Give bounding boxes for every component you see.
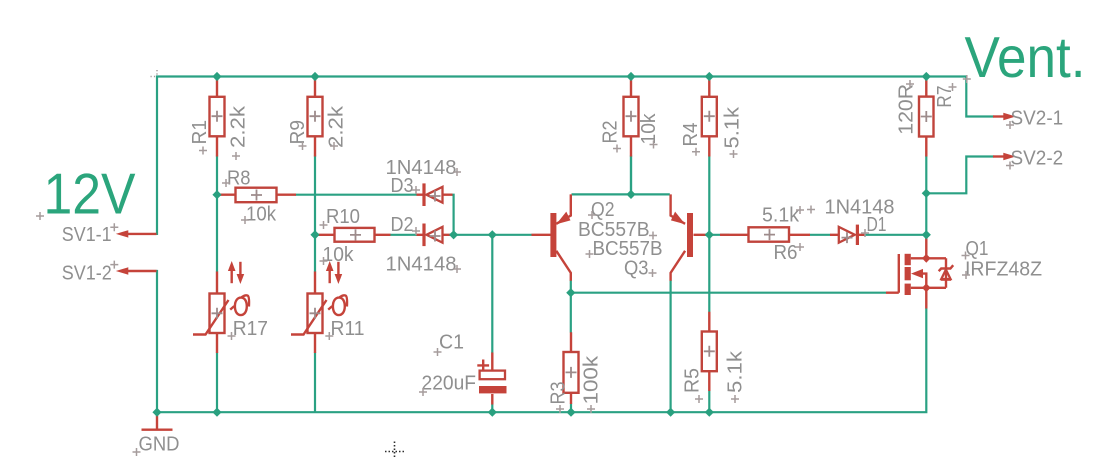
- junction: base net / C1: [488, 230, 497, 239]
- transistor Q3 BC557B (PNP, right): [671, 194, 713, 280]
- junction: GND rail / R17: [212, 408, 221, 417]
- junction: Q3 base / R4-R5 column: [705, 230, 714, 239]
- wire: C1 bottom to GND rail: [491, 404, 493, 412]
- wire: GND net (SV1-2 corner, left drop, bottom rail, MOSFET source riser): [156, 271, 926, 412]
- svg-text:Q3: Q3: [624, 258, 649, 280]
- wire: gate net, Q2 collector node to Q1 gate: [571, 292, 886, 294]
- svg-text:100k: 100k: [581, 355, 603, 405]
- capacitor C1 220uF (polarized): [477, 353, 506, 405]
- diode D2 1N4148 (pointing left): [417, 224, 453, 247]
- wire: D3 cathode corner down to base node: [452, 195, 454, 235]
- pin SV2-2: [993, 153, 1016, 160]
- wire: R5 bottom to GND rail: [708, 391, 710, 413]
- resistor R5 5.1k: [702, 312, 717, 391]
- svg-text:12V: 12V: [44, 163, 137, 227]
- svg-text:R9: R9: [287, 120, 309, 145]
- junction: GND rail / R5: [705, 408, 714, 417]
- svg-text:R11: R11: [331, 318, 365, 340]
- junction: GND rail / left drop: [152, 408, 161, 417]
- svg-text:10k: 10k: [323, 244, 355, 266]
- svg-text:220uF: 220uF: [422, 373, 477, 395]
- wire: R1 column net (R1 bottom to R8 node to R17 top): [216, 156, 218, 272]
- text origin cross marks (gray): [36, 75, 1014, 456]
- transistor Q2 BC557B (PNP, left): [532, 194, 571, 280]
- junction: GND rail / Q3 collector: [666, 408, 675, 417]
- svg-text:D3: D3: [391, 175, 414, 197]
- svg-text:5.1k: 5.1k: [722, 106, 744, 149]
- wire: Q2 collector node down to R3: [570, 280, 572, 333]
- junction: GND rail / C1: [488, 408, 497, 417]
- svg-text:R2: R2: [600, 121, 622, 144]
- resistor R6 5.1k: [720, 227, 810, 241]
- junction: D3/D2 cathode node: [449, 230, 458, 239]
- wire: R11 bottom to GND rail: [314, 352, 316, 412]
- sheet origin cross (dotted): [385, 442, 405, 458]
- resistor R9 2.2k: [308, 78, 323, 157]
- svg-text:R10: R10: [326, 206, 360, 228]
- diode D3 1N4148 (pointing left): [417, 183, 453, 206]
- svg-text:IRFZ48Z: IRFZ48Z: [965, 259, 1042, 281]
- junction: R7 bottom / SV2-2 node: [922, 189, 931, 198]
- svg-text:R17: R17: [233, 318, 268, 340]
- svg-text:SV2-1: SV2-1: [1011, 108, 1064, 130]
- mosfet Q1 IRFZ48Z: [886, 235, 953, 309]
- wire: R9 column net (R9 bottom, R10 node, R11 top): [314, 156, 316, 272]
- junction: Q2 collector / R3 / gate net: [566, 288, 575, 297]
- resistor R7 120R: [919, 78, 934, 157]
- svg-text:D1: D1: [867, 214, 887, 236]
- wire: R17 bottom to GND rail: [216, 352, 218, 412]
- svg-text:R5: R5: [682, 368, 704, 393]
- svg-text:R4: R4: [680, 123, 702, 147]
- svg-text:SV1-2: SV1-2: [62, 263, 112, 285]
- svg-text:2.2k: 2.2k: [228, 105, 250, 148]
- junction: D1 cathode / drain node: [922, 230, 931, 239]
- svg-text:R1: R1: [189, 120, 211, 145]
- frame origin cross at 12V rail corner: [151, 70, 165, 84]
- resistor R1 2.2k: [210, 78, 225, 157]
- svg-text:120R: 120R: [896, 84, 918, 135]
- svg-text:10k: 10k: [246, 204, 277, 226]
- wire: R7 bottom to SV2-2 node: [925, 156, 927, 235]
- svg-text:C1: C1: [439, 332, 464, 354]
- svg-text:10k: 10k: [638, 113, 660, 145]
- svg-text:Q2: Q2: [591, 199, 615, 221]
- wire: R6 right to D1 anode: [810, 234, 831, 236]
- wire: C1 top plate branch: [491, 235, 493, 353]
- svg-text:R6: R6: [774, 242, 798, 264]
- svg-text:GND: GND: [139, 434, 180, 456]
- wire: R10 right to D2 anode: [390, 234, 417, 236]
- svg-text:Vent.: Vent.: [965, 26, 1086, 90]
- wire: R8 right to D3 anode: [296, 194, 417, 196]
- wire: SV2-2 branch: [926, 157, 993, 194]
- wire: Q3 collector down to GND rail: [669, 280, 671, 412]
- thermistor R17: [193, 261, 249, 353]
- svg-text:5.1k: 5.1k: [725, 350, 747, 393]
- svg-text:SV1-1: SV1-1: [62, 224, 112, 246]
- junction: R9/R10 node: [310, 230, 319, 239]
- wire: Q2/Q3 emitter rail with R2 tap: [572, 156, 670, 195]
- wire: base net D2/D3 node to C1 node to Q2 base: [454, 234, 532, 236]
- wire: Q3 base to R6 left: [706, 234, 730, 236]
- resistor R8 10k: [218, 188, 296, 203]
- junction: rail/R4: [705, 72, 714, 81]
- junction: rail/R7: [922, 72, 931, 81]
- junction: GND rail / R3: [566, 408, 575, 417]
- pin SV1-1: [116, 230, 157, 237]
- resistor R3 100k: [564, 332, 579, 404]
- thermistor R11: [291, 261, 347, 353]
- wire: R4 column (rail to R4, down through base node, to R5): [708, 156, 710, 312]
- svg-text:R3: R3: [548, 382, 570, 405]
- junction: R1/R8 node: [212, 190, 221, 199]
- resistor R4 5.1k: [702, 78, 717, 157]
- svg-text:Q1: Q1: [966, 238, 989, 260]
- ground symbol GND: [142, 412, 173, 430]
- resistor R10 10k: [316, 228, 391, 242]
- junction: emitter node / R2: [626, 190, 635, 199]
- svg-text:SV2-2: SV2-2: [1011, 148, 1064, 170]
- pin SV1-2: [116, 267, 157, 274]
- wire: 12V net (top rail, left drop to SV1-1, right drop to SV2-1): [156, 77, 994, 234]
- svg-text:5.1k: 5.1k: [762, 205, 800, 227]
- resistor R2 10k: [624, 78, 639, 157]
- wire: R2 bottom to emitter node: [630, 156, 632, 195]
- wire: R3 bottom to GND rail: [570, 404, 572, 413]
- pin SV2-1: [993, 113, 1016, 120]
- svg-text:D2: D2: [391, 214, 414, 236]
- junction: rail/R9: [310, 72, 319, 81]
- diode D1 1N4148 (pointing right): [830, 225, 865, 245]
- svg-text:1N4148: 1N4148: [386, 254, 457, 276]
- junction: rail/R1: [212, 72, 221, 81]
- junction: rail/R2: [626, 72, 635, 81]
- svg-text:2.2k: 2.2k: [326, 105, 348, 148]
- svg-text:R8: R8: [227, 168, 251, 190]
- wire: D1 cathode to drain node: [865, 234, 927, 236]
